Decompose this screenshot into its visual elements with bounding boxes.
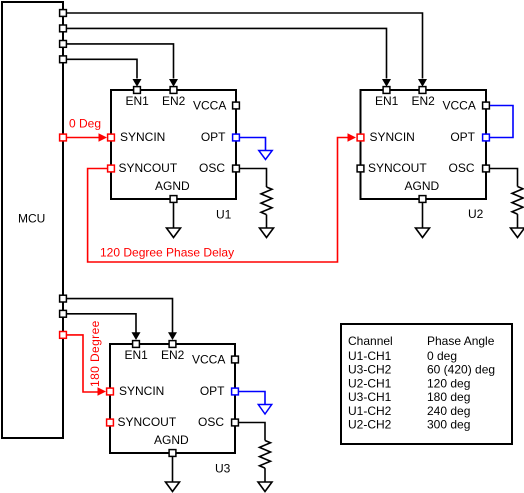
svg-text:MCU: MCU: [18, 212, 45, 226]
svg-text:U2-CH2: U2-CH2: [348, 418, 392, 432]
U3 pin SYNCOUT: [107, 415, 177, 429]
U1 pin SYNCOUT: [108, 161, 178, 175]
svg-text:0 deg: 0 deg: [427, 349, 457, 363]
wire 120 Degree Phase Delay: U1 SYNCOUT to U2 SYNCIN: [88, 133, 356, 262]
ground U1 AGND: [167, 228, 181, 238]
svg-text:AGND: AGND: [405, 179, 440, 193]
svg-text:EN1: EN1: [126, 94, 150, 108]
svg-text:Channel: Channel: [348, 334, 393, 348]
svg-text:U3: U3: [215, 462, 231, 476]
svg-text:AGND: AGND: [155, 179, 190, 193]
wire R1 to ground: [266, 215, 268, 228]
wire MCU to U3 EN2: [67, 299, 177, 340]
svg-text:60 (420) deg: 60 (420) deg: [427, 363, 495, 377]
svg-text:VCCA: VCCA: [193, 99, 226, 113]
U1 pin AGND: [155, 179, 190, 202]
ground U1 OPT (blue): [259, 151, 272, 160]
IC U1 block: [111, 90, 236, 222]
svg-text:OPT: OPT: [201, 130, 226, 144]
resistor R2 on U2 OSC: [512, 187, 523, 215]
U1 pin SYNCIN: [108, 130, 166, 144]
MCU pin square 3: [60, 41, 67, 48]
node 0 Deg on MCU: [60, 134, 67, 141]
wire U1 AGND: [173, 203, 175, 228]
U2 pin OSC: [448, 161, 489, 175]
svg-text:OPT: OPT: [450, 130, 475, 144]
svg-text:U3-CH2: U3-CH2: [348, 363, 392, 377]
wire MCU to U3 EN1: [67, 314, 141, 340]
U3 pin EN1: [125, 341, 149, 362]
U3 pin AGND: [154, 433, 189, 456]
svg-text:EN1: EN1: [375, 94, 399, 108]
svg-text:SYNCOUT: SYNCOUT: [368, 161, 427, 175]
svg-text:VCCA: VCCA: [443, 99, 476, 113]
wire U1 OSC: [240, 169, 267, 188]
svg-text:240 deg: 240 deg: [427, 404, 470, 418]
U2 pin SYNCOUT: [357, 161, 427, 175]
svg-text:OSC: OSC: [198, 415, 224, 429]
resistor R3 on U3 OSC: [260, 441, 271, 469]
wire MCU to U1 EN1: [67, 59, 142, 86]
MCU pin square 2: [60, 25, 67, 32]
U2 pin VCCA: [443, 99, 490, 113]
svg-text:EN1: EN1: [125, 348, 149, 362]
svg-text:U2-CH1: U2-CH1: [348, 376, 392, 390]
wire U3 OSC: [239, 423, 265, 441]
U3 pin OSC: [198, 415, 238, 429]
svg-text:120 Degree Phase Delay: 120 Degree Phase Delay: [100, 246, 234, 260]
MCU pin square 4: [60, 56, 67, 63]
U1 pin EN1: [126, 87, 150, 108]
ground U2 AGND: [416, 228, 430, 238]
U3 pin EN2: [161, 341, 185, 362]
wire U3 AGND: [172, 457, 174, 482]
svg-text:U1-CH2: U1-CH2: [348, 404, 392, 418]
svg-text:180 Degree: 180 Degree: [88, 320, 102, 387]
svg-text:0 Deg: 0 Deg: [69, 117, 101, 131]
svg-text:SYNCOUT: SYNCOUT: [119, 161, 178, 175]
wire 0 Deg: MCU to U1 SYNCIN: [67, 117, 107, 142]
svg-text:OSC: OSC: [199, 161, 225, 175]
U2 pin AGND: [405, 179, 440, 202]
U3 pin OPT: [200, 384, 239, 398]
svg-text:SYNCIN: SYNCIN: [120, 130, 165, 144]
svg-text:OSC: OSC: [448, 161, 474, 175]
svg-text:U2: U2: [468, 207, 484, 221]
wire U3 OPT blue: [239, 392, 265, 405]
U2 pin OPT: [450, 130, 489, 144]
wire MCU to U2 EN2: [67, 13, 427, 87]
U2 pin EN2: [412, 87, 436, 108]
svg-text:OPT: OPT: [200, 384, 225, 398]
wire MCU to U1 EN2: [67, 44, 178, 87]
svg-text:300 deg: 300 deg: [427, 418, 470, 432]
wire MCU to U2 EN1: [67, 28, 391, 86]
wire R2 to ground: [517, 214, 519, 228]
MCU U? block: [2, 2, 63, 438]
ground U3 OPT (blue): [258, 405, 271, 415]
wire R3 to ground: [264, 468, 266, 482]
U2 pin SYNCIN: [357, 130, 415, 144]
U1 pin OSC: [199, 161, 239, 175]
svg-text:EN2: EN2: [162, 94, 186, 108]
U3 pin VCCA: [192, 353, 238, 367]
wire U2 OSC: [490, 169, 518, 187]
svg-text:120 deg: 120 deg: [427, 376, 470, 390]
ground U2 OSC: [511, 228, 524, 238]
svg-text:SYNCIN: SYNCIN: [370, 130, 415, 144]
svg-text:Phase Angle: Phase Angle: [427, 334, 495, 348]
wire U2 VCCA to OPT blue loop: [490, 106, 513, 138]
table phase angles: [341, 324, 512, 444]
U2 pin EN1: [375, 87, 399, 108]
ground U1 OSC: [260, 228, 274, 238]
wire U2 AGND: [422, 203, 424, 228]
svg-text:VCCA: VCCA: [192, 353, 225, 367]
ground U3 OSC: [258, 482, 272, 492]
U1 pin VCCA: [193, 99, 239, 113]
IC U2 block: [361, 90, 487, 221]
MCU pin square 1: [60, 10, 67, 17]
node 180 Degree on MCU: [60, 332, 67, 339]
svg-text:U1: U1: [216, 208, 232, 222]
ground U3 AGND: [166, 482, 180, 492]
svg-text:SYNCIN: SYNCIN: [119, 384, 164, 398]
svg-text:EN2: EN2: [412, 94, 436, 108]
resistor R1 on U1 OSC: [261, 187, 272, 215]
MCU pin square 6: [60, 310, 67, 317]
svg-text:U3-CH1: U3-CH1: [348, 390, 392, 404]
svg-text:AGND: AGND: [154, 433, 189, 447]
svg-text:SYNCOUT: SYNCOUT: [118, 415, 177, 429]
U1 pin EN2: [162, 87, 186, 108]
svg-text:180 deg: 180 deg: [427, 390, 470, 404]
wire 180 Degree: MCU to U3 SYNCIN: [67, 320, 106, 395]
MCU pin square 5: [60, 295, 67, 302]
wire U1 OPT blue: [240, 138, 266, 151]
IC U3 block: [110, 344, 235, 476]
U3 pin SYNCIN: [107, 384, 165, 398]
svg-text:U1-CH1: U1-CH1: [348, 349, 392, 363]
U1 pin OPT: [201, 130, 240, 144]
svg-text:EN2: EN2: [161, 348, 185, 362]
